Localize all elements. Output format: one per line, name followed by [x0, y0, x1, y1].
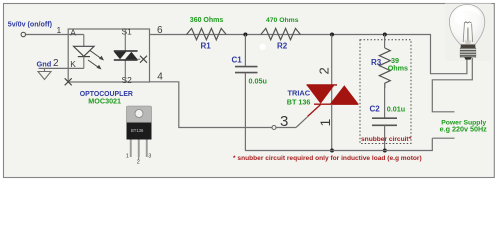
resistor R3 [379, 48, 390, 88]
white dot artifact [259, 44, 265, 50]
triac Q1 BT136 [307, 84, 338, 86]
junction node bottom rail / triac MT1 [330, 149, 334, 153]
svg-text:A: A [70, 27, 76, 37]
svg-text:0.05u: 0.05u [249, 76, 267, 85]
capacitor C1 [235, 66, 258, 68]
wire triac MT2 [331, 35, 333, 105]
phototriac (diac symbol) inside optocoupler [114, 50, 138, 52]
resistor R1 [187, 28, 227, 39]
wire ground to optocoupler pin 2 [39, 67, 84, 69]
svg-text:Ohms: Ohms [388, 64, 408, 73]
wire C2 to bottom rail [384, 126, 386, 151]
svg-text:S1: S1 [122, 26, 133, 36]
svg-text:K: K [70, 59, 76, 69]
wire triac MT1 [331, 104, 333, 150]
svg-text:BT 136: BT 136 [287, 97, 311, 106]
svg-text:1: 1 [57, 25, 62, 35]
LED emission arrows [90, 51, 103, 60]
svg-text:R1: R1 [201, 42, 212, 51]
junction node R1/R2/C1 [243, 33, 247, 37]
wire gate diagonal segment [296, 117, 308, 128]
svg-text:2: 2 [53, 58, 59, 69]
triac gate lead [308, 105, 321, 117]
wire bottom rail [245, 138, 432, 150]
svg-text:R2: R2 [277, 42, 288, 51]
snubber circuit dashed outline [360, 40, 411, 144]
power supply neutral terminal stub [432, 137, 454, 139]
junction node top rail / snubber [383, 33, 387, 37]
svg-text:470 Ohms: 470 Ohms [266, 17, 299, 24]
junction node top rail / triac MT2 [330, 33, 334, 37]
svg-text:2: 2 [137, 160, 140, 166]
input terminal 5v/0v [21, 32, 25, 36]
svg-text:4: 4 [157, 71, 163, 82]
svg-text:S2: S2 [122, 75, 133, 85]
wire C1 bottom plate to bottom rail [244, 73, 246, 151]
svg-text:e.g 220v 50Hz: e.g 220v 50Hz [440, 125, 488, 134]
svg-text:3: 3 [148, 154, 151, 160]
lamp LP1 (bulb photo) [449, 4, 484, 59]
svg-text:1: 1 [317, 119, 333, 127]
wire internal phototriac to S2 [124, 60, 126, 82]
svg-text:snubber circuit*: snubber circuit* [361, 136, 412, 143]
svg-text:Gnd: Gnd [37, 59, 52, 68]
svg-text:3: 3 [280, 113, 288, 130]
wire top rail to R3 [384, 35, 386, 49]
svg-text:BT136: BT136 [131, 128, 144, 133]
resistor R2 [261, 28, 301, 39]
wire junction to C1 top plate [244, 35, 246, 67]
svg-text:C2: C2 [370, 104, 381, 113]
wire R3 to C2 [384, 88, 386, 118]
svg-text:360 Ohms: 360 Ohms [190, 17, 224, 24]
transistor Q1 package photo BT136 (TO-220) [126, 106, 152, 166]
junction node bottom rail / snubber [383, 149, 387, 153]
svg-text:1: 1 [126, 154, 129, 160]
svg-text:2: 2 [317, 67, 332, 74]
capacitor C2 [372, 117, 397, 119]
svg-text:R3: R3 [371, 58, 382, 67]
pin marker on gate wire [272, 126, 276, 130]
svg-text:TRIAC: TRIAC [288, 88, 311, 97]
X no-connect marker at optocoupler lower-left pin [65, 78, 72, 85]
optocoupler U1 MOC3021 body [68, 29, 149, 82]
svg-text:* snubber circuit required onl: * snubber circuit required only for indu… [233, 155, 422, 162]
ground [44, 68, 46, 71]
svg-text:C1: C1 [232, 55, 243, 64]
svg-text:MOC3021: MOC3021 [88, 97, 121, 106]
wire internal S1 to phototriac [124, 29, 126, 51]
wire lamp to power supply live terminal [432, 58, 472, 112]
svg-text:0.01u: 0.01u [387, 104, 405, 113]
X no-connect marker at phototriac gate [138, 58, 141, 60]
svg-text:5v/0v (on/off): 5v/0v (on/off) [8, 20, 53, 28]
wire top rail from pin 6 through R1/R2 to lamp [150, 35, 467, 74]
wire optocoupler pin 4 to triac gate [150, 82, 297, 128]
wire input to optocoupler pin 1 [26, 34, 84, 36]
LED D1 inside optocoupler [83, 35, 85, 47]
